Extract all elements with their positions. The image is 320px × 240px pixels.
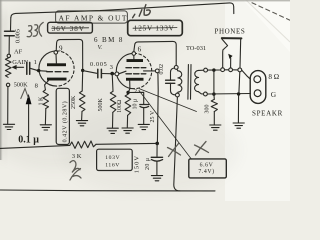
pencil dashed diagonal xyxy=(252,3,290,20)
junction dot cathode xyxy=(126,91,129,94)
box measurement 0.42V xyxy=(56,88,69,144)
handwriting XX xyxy=(168,142,209,157)
wire top bus xyxy=(11,3,234,18)
tube V2 pentode xyxy=(115,52,152,93)
junction dot plate node xyxy=(81,69,84,72)
svg-text:500K: 500K xyxy=(14,82,28,89)
ground 1K xyxy=(40,125,51,130)
box 103V 116V xyxy=(97,149,133,170)
paper background xyxy=(0,0,290,201)
handwriting 16 top xyxy=(133,5,151,18)
svg-text:G: G xyxy=(271,90,277,99)
svg-text:0.02: 0.02 xyxy=(159,64,165,75)
resistor R4 300 xyxy=(211,94,217,124)
svg-text:250K: 250K xyxy=(71,95,77,109)
svg-text:20 μ: 20 μ xyxy=(145,158,151,170)
svg-text:AF: AF xyxy=(14,49,23,56)
arrow pointer 0.1u xyxy=(26,94,32,136)
box title AF AMP OUT xyxy=(56,11,128,23)
ground pot xyxy=(3,124,14,129)
phone jack J1 xyxy=(221,38,242,72)
svg-text:10 μ: 10 μ xyxy=(133,99,139,110)
resistor R2 250K xyxy=(79,70,85,120)
wire primary feed down xyxy=(174,97,180,191)
junction dot grid V1 xyxy=(37,69,40,72)
ground 10u xyxy=(138,124,149,129)
box 6.6V 7.4V xyxy=(189,159,227,178)
svg-text:SPEAKR: SPEAKR xyxy=(252,110,283,118)
svg-text:1: 1 xyxy=(34,59,37,66)
wire secondary top to terminals xyxy=(204,68,251,79)
handwriting scribble 3K xyxy=(70,161,81,180)
svg-text:6.6V: 6.6V xyxy=(200,162,214,168)
bus B+ with 3K xyxy=(0,141,156,148)
wire screen grid xyxy=(144,69,160,143)
leader line second xyxy=(140,89,197,112)
svg-text:300: 300 xyxy=(204,105,210,114)
svg-text:1 K: 1 K xyxy=(39,96,45,106)
svg-text:2: 2 xyxy=(134,88,137,95)
handwriting lambda xyxy=(21,89,28,99)
svg-text:V.: V. xyxy=(98,44,103,51)
ground 100 xyxy=(122,128,133,133)
capacitor C4 10u bypass xyxy=(128,92,149,124)
handwriting scribble top left xyxy=(27,22,43,36)
svg-text:AF AMP & OUT: AF AMP & OUT xyxy=(59,13,128,22)
svg-text:TO-031: TO-031 xyxy=(186,45,206,52)
ground 250K xyxy=(76,121,87,126)
svg-text:125V 133V: 125V 133V xyxy=(134,25,175,33)
tube V1 triode xyxy=(39,51,74,90)
capacitor C5 20u xyxy=(151,143,162,175)
wire grid V1 xyxy=(37,70,47,73)
speaker terminal strip xyxy=(250,71,266,104)
leader line heater to box xyxy=(139,91,192,160)
svg-text:9: 9 xyxy=(59,44,63,52)
wire sleeve ground xyxy=(238,72,239,123)
capacitor C-in 0.005 input xyxy=(5,18,15,55)
capacitor C1 0.1u series xyxy=(27,62,37,74)
junction dot screen bus xyxy=(155,142,159,146)
svg-text:6: 6 xyxy=(138,45,142,53)
ground 300 xyxy=(210,125,221,130)
svg-text:36V 38V: 36V 38V xyxy=(52,25,85,33)
svg-text:116V: 116V xyxy=(105,163,120,169)
wire plate V2 to transformer xyxy=(134,41,176,65)
junction dot bottom tap xyxy=(212,92,215,95)
svg-text:150V: 150V xyxy=(133,155,140,173)
ground 20u xyxy=(151,176,162,181)
svg-text:8 Ω: 8 Ω xyxy=(268,73,279,81)
svg-text:7.4V): 7.4V) xyxy=(198,168,214,175)
pencil marks group xyxy=(21,3,290,180)
wire plate V1 to coupling xyxy=(56,39,82,70)
wire heater line bottom xyxy=(0,189,215,192)
junction dot top tap xyxy=(212,68,215,71)
svg-text:PHONES: PHONES xyxy=(215,27,246,35)
resistor R1 1K cathode xyxy=(43,90,48,124)
ground sleeve xyxy=(233,123,244,128)
wire cap to grid V2 xyxy=(101,73,115,75)
svg-text:3 K: 3 K xyxy=(72,153,82,160)
box 36V 38V xyxy=(48,22,93,33)
capacitor C2 0.005 coupling xyxy=(98,69,102,77)
svg-text:0.005: 0.005 xyxy=(15,29,22,43)
box 125V 133V xyxy=(128,20,183,35)
svg-text:6 BM 8: 6 BM 8 xyxy=(94,36,124,44)
svg-text:500K: 500K xyxy=(98,98,104,112)
wire tap down xyxy=(213,70,215,94)
ground 500K xyxy=(107,128,118,133)
transformer T1 output xyxy=(166,65,204,100)
svg-text:100Ω: 100Ω xyxy=(117,99,123,113)
junction dot bottom xyxy=(237,92,240,95)
junction dot grid V2 xyxy=(110,72,114,76)
potentiometer AF GAIN 500K xyxy=(5,54,23,123)
wire secondary bottom to terminal G xyxy=(204,92,251,96)
svg-text:103V: 103V xyxy=(105,155,120,161)
svg-text:0.42V (0.28V): 0.42V (0.28V) xyxy=(62,101,69,143)
resistor R5 100 cathode V2 xyxy=(125,92,131,127)
svg-text:0.005: 0.005 xyxy=(90,61,107,68)
wire coupling cap xyxy=(83,71,97,74)
svg-text:0.1 μ: 0.1 μ xyxy=(18,134,39,145)
resistor R3 500K grid xyxy=(110,74,116,128)
